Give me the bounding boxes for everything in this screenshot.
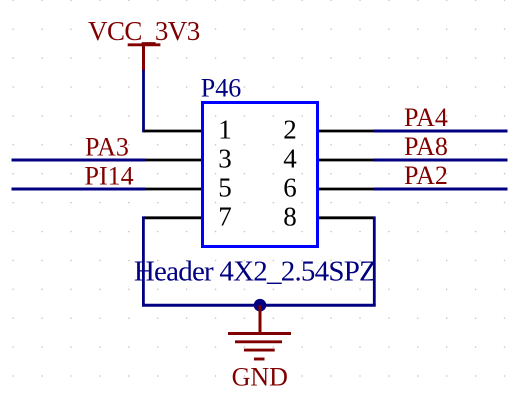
svg-text:8: 8 bbox=[283, 202, 297, 232]
svg-text:PA4: PA4 bbox=[404, 103, 448, 132]
svg-text:7: 7 bbox=[218, 202, 232, 232]
svg-text:2: 2 bbox=[283, 115, 297, 145]
svg-text:PI14: PI14 bbox=[85, 162, 134, 191]
junction bbox=[254, 299, 267, 312]
wire PA2 bbox=[374, 188, 508, 191]
ground bar 3 bbox=[244, 349, 275, 352]
pin 8 bbox=[317, 216, 374, 219]
wire PA4 bbox=[374, 130, 508, 133]
pin 6 bbox=[317, 188, 374, 191]
svg-text:PA3: PA3 bbox=[85, 133, 129, 162]
pin 3 bbox=[145, 159, 203, 162]
pin 4 bbox=[317, 159, 374, 162]
wire bottom bbox=[142, 304, 376, 307]
svg-text:PA2: PA2 bbox=[404, 161, 448, 190]
ground bar 2 bbox=[235, 340, 282, 343]
svg-text:6: 6 bbox=[283, 173, 297, 203]
ground stem bbox=[259, 305, 262, 333]
wire pin8 down bbox=[373, 216, 376, 305]
wire VCC to pin1 bbox=[142, 70, 145, 132]
svg-text:1: 1 bbox=[218, 115, 232, 145]
svg-text:5: 5 bbox=[218, 173, 232, 203]
svg-text:VCC_3V3: VCC_3V3 bbox=[88, 16, 200, 46]
wire PI14 bbox=[12, 188, 146, 191]
power symbol VCC_3V3 bbox=[88, 16, 200, 71]
svg-text:P46: P46 bbox=[201, 74, 241, 103]
connector U P46 body bbox=[203, 103, 318, 247]
ground bar 1 bbox=[228, 332, 291, 335]
svg-text:GND: GND bbox=[232, 363, 288, 392]
ground bar 4 bbox=[254, 358, 265, 361]
svg-text:Header 4X2_2.54SPZ: Header 4X2_2.54SPZ bbox=[134, 255, 376, 287]
svg-text:3: 3 bbox=[218, 144, 232, 174]
pin 5 bbox=[145, 188, 203, 191]
pin 2 bbox=[317, 130, 374, 133]
wire pin7 down bbox=[142, 216, 145, 305]
wire PA8 bbox=[374, 159, 508, 162]
svg-text:PA8: PA8 bbox=[404, 132, 448, 161]
pin 1 bbox=[144, 130, 203, 133]
svg-text:4: 4 bbox=[283, 144, 297, 174]
pin 7 bbox=[144, 216, 203, 219]
wire PA3 bbox=[12, 159, 146, 162]
